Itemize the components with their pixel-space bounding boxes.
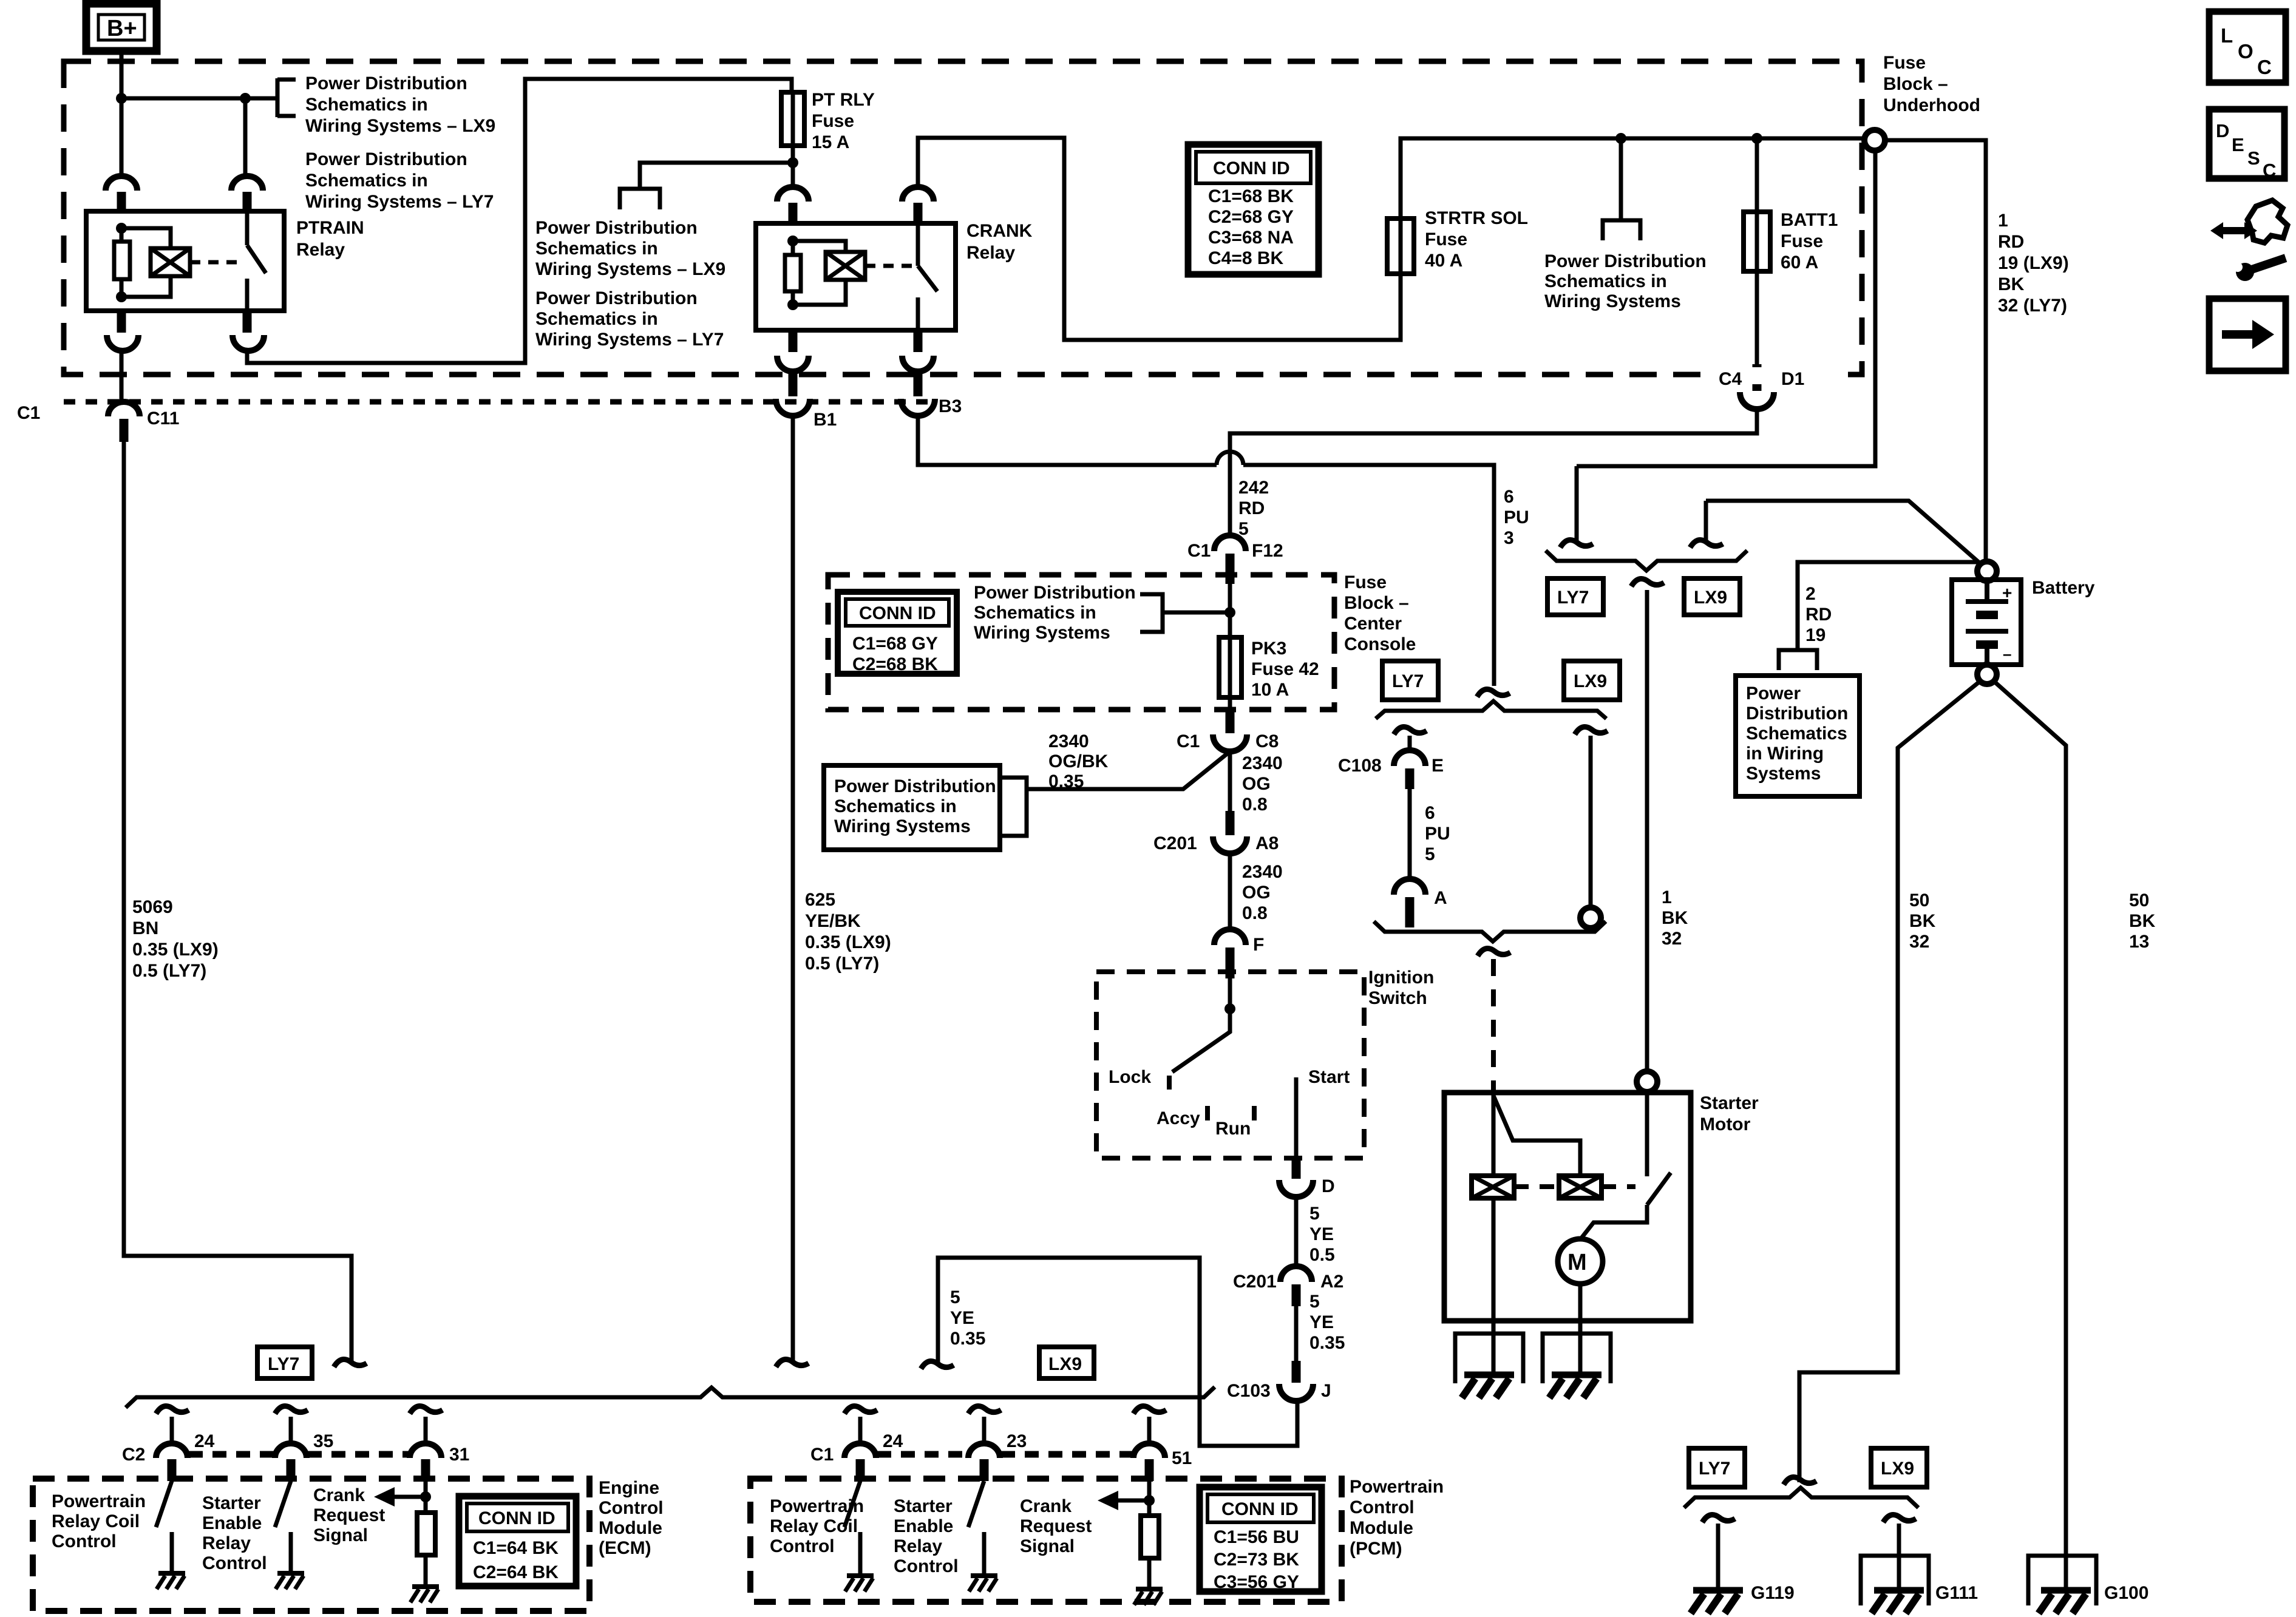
wire fuse to CRANK relay left pin [791, 146, 795, 188]
PTRAIN relay coil [151, 248, 190, 276]
wire B3 feed up to circle bottom [1577, 151, 1875, 466]
svg-text:CONN ID: CONN ID [1213, 158, 1290, 178]
svg-text:C: C [2257, 56, 2272, 78]
label 2340 OG 0.8 [1242, 753, 1283, 815]
svg-text:15 A: 15 A [812, 132, 849, 152]
svg-text:6: 6 [1425, 803, 1435, 823]
svg-text:CONN ID: CONN ID [1221, 1499, 1299, 1519]
svg-text:Control: Control [52, 1531, 117, 1551]
svg-text:Wiring Systems – LY7: Wiring Systems – LY7 [535, 330, 724, 350]
splice squiggle above bus4 [1784, 1477, 1816, 1485]
ECM crank request arrow [374, 1487, 431, 1507]
svg-text:Switch: Switch [1368, 988, 1427, 1008]
wire 5069 BN down left side [124, 442, 352, 1364]
CRANK switch [918, 223, 937, 330]
wire A8 down to F [1228, 853, 1232, 931]
svg-text:LY7: LY7 [1699, 1459, 1730, 1479]
ground starter 2 [1549, 1375, 1601, 1398]
conn id table underhood [1188, 144, 1319, 274]
svg-text:Lock: Lock [1109, 1067, 1151, 1087]
bus4 splice bar G119/G111 [1684, 1488, 1918, 1508]
svg-text:Fuse: Fuse [1781, 231, 1823, 251]
connector C1 C8 [1177, 731, 1279, 751]
svg-text:G111: G111 [1935, 1583, 1978, 1603]
svg-text:Module: Module [1350, 1518, 1413, 1538]
svg-text:Schematics in: Schematics in [305, 171, 428, 191]
ignition switch wire to pivot [1228, 978, 1232, 1009]
label 2 RD 19 [1805, 584, 1832, 645]
connector B3 [901, 396, 962, 416]
label crank request signal (PCM) [1020, 1496, 1092, 1556]
svg-text:C3=68 NA: C3=68 NA [1208, 228, 1294, 248]
svg-text:D: D [2216, 120, 2229, 141]
connector C201 A8 [1153, 833, 1279, 853]
svg-text:1: 1 [1662, 887, 1672, 907]
svg-text:C4=8 BK: C4=8 BK [1208, 248, 1284, 268]
ECM ground 24 [157, 1573, 185, 1589]
svg-text:BK: BK [1662, 908, 1688, 928]
dashed link coil2-switch [1601, 1184, 1635, 1189]
svg-text:RD: RD [1238, 498, 1265, 518]
PCM ground 24 [845, 1576, 874, 1592]
ECM switch 24 [156, 1481, 172, 1573]
label 1 BK 32 [1662, 887, 1688, 949]
wire coil1 to box bottom [1492, 1198, 1496, 1375]
wire to LX9/LY7 reference bracket [640, 163, 793, 189]
label 1 RD 19 [1998, 211, 2069, 316]
svg-text:S: S [2247, 147, 2260, 169]
note power distribution LY7 [305, 149, 494, 212]
svg-text:Schematics in: Schematics in [305, 95, 428, 115]
svg-text:C103: C103 [1227, 1381, 1271, 1401]
svg-text:0.35 (LX9): 0.35 (LX9) [805, 932, 891, 952]
svg-text:Enable: Enable [894, 1516, 953, 1536]
svg-text:2: 2 [1805, 584, 1816, 604]
svg-text:1: 1 [1998, 211, 2008, 231]
svg-text:C1=68 GY: C1=68 GY [852, 634, 938, 654]
svg-text:E: E [2232, 134, 2244, 155]
junction dot at PTRAIN right pin branch [240, 93, 251, 104]
svg-text:10 A: 10 A [1251, 680, 1289, 700]
svg-text:C4: C4 [1719, 369, 1742, 389]
svg-text:Power Distribution: Power Distribution [1544, 251, 1707, 271]
svg-text:C1: C1 [1187, 541, 1211, 561]
wire motor to box bottom [1578, 1284, 1583, 1375]
label 242 RD 5 [1238, 478, 1269, 539]
svg-text:PT RLY: PT RLY [812, 90, 875, 110]
fuse PT RLY 15A [781, 90, 875, 152]
wire PTRAIN right pin from branch [243, 98, 248, 175]
svg-text:C1=64 BK: C1=64 BK [473, 1538, 559, 1558]
svg-text:C1: C1 [1177, 731, 1200, 751]
svg-text:5: 5 [1425, 844, 1435, 864]
svg-text:Start: Start [1308, 1067, 1350, 1087]
svg-text:in Wiring: in Wiring [1746, 744, 1824, 764]
svg-text:2340: 2340 [1242, 862, 1283, 882]
PTRAIN resistor [114, 242, 130, 279]
bracket PDS box left [1002, 778, 1027, 836]
svg-text:LX9: LX9 [1574, 671, 1607, 691]
svg-text:Schematics in: Schematics in [834, 796, 957, 816]
svg-text:19 (LX9): 19 (LX9) [1998, 253, 2069, 273]
svg-text:RD: RD [1805, 605, 1832, 625]
svg-text:Ignition: Ignition [1368, 968, 1434, 988]
svg-text:Crank: Crank [1020, 1496, 1072, 1516]
wire B1 pin to dotted line [789, 373, 798, 396]
label 5069 BN [132, 897, 219, 981]
svg-text:32 (LY7): 32 (LY7) [1998, 296, 2067, 316]
svg-text:(PCM): (PCM) [1350, 1539, 1402, 1559]
bracket PDS (top right) [1603, 220, 1640, 240]
svg-text:LX9: LX9 [1881, 1459, 1914, 1479]
svg-text:50: 50 [1909, 890, 1929, 910]
svg-text:LX9: LX9 [1694, 588, 1727, 608]
connector C4 D1 [1719, 369, 1804, 409]
svg-text:Fuse: Fuse [1344, 572, 1387, 592]
svg-text:Relay: Relay [202, 1533, 251, 1553]
svg-text:19: 19 [1805, 625, 1826, 645]
junction dot at B+ branch [116, 93, 127, 104]
wire F12 to PK3 fuse [1228, 584, 1232, 637]
PCM crank request arrow [1098, 1491, 1155, 1510]
label starter motor [1700, 1093, 1759, 1134]
starter solenoid branch to coil2 [1493, 1096, 1580, 1176]
Lock position tick [1167, 1076, 1172, 1090]
svg-text:LY7: LY7 [1557, 588, 1589, 608]
ground bracket starter 2 [1543, 1334, 1611, 1383]
PCM pin dashed link [877, 1451, 967, 1458]
bus LY7/LX9 module feed bar [126, 1387, 1215, 1408]
Accy position tick [1205, 1106, 1210, 1120]
PTRAIN coil junction bottom [116, 291, 127, 302]
svg-text:B3: B3 [939, 396, 962, 416]
svg-text:Starter: Starter [894, 1496, 953, 1516]
wire PTRAIN output down to C11 [120, 351, 124, 402]
wire blade to motor [1580, 1205, 1647, 1239]
svg-text:625: 625 [805, 890, 835, 910]
connector A [1394, 879, 1447, 927]
svg-text:YE/BK: YE/BK [805, 911, 861, 931]
svg-text:Battery: Battery [2032, 578, 2095, 598]
battery positive terminal circle [1977, 561, 1997, 581]
wire to G111 [1897, 1524, 1901, 1590]
svg-text:CONN ID: CONN ID [859, 603, 936, 623]
svg-text:Run: Run [1215, 1119, 1251, 1139]
splice squiggle below bus2 right [1575, 727, 1608, 735]
label fuse block center console [1344, 572, 1416, 654]
svg-text:Distribution: Distribution [1746, 703, 1848, 724]
connector B1 [776, 399, 837, 430]
svg-text:Schematics in: Schematics in [535, 309, 658, 329]
wire branch to PT RLY fuse [121, 97, 277, 101]
svg-text:Powertrain: Powertrain [1350, 1477, 1444, 1497]
svg-text:Request: Request [1020, 1516, 1092, 1536]
ECM pin 24 drop [122, 1406, 215, 1482]
splice squiggle above LY7 bus left [334, 1360, 367, 1368]
ground bracket G100 [2028, 1556, 2096, 1605]
svg-text:24: 24 [883, 1431, 903, 1451]
svg-text:C2=73 BK: C2=73 BK [1214, 1550, 1299, 1570]
svg-text:Relay: Relay [894, 1536, 942, 1556]
splice squiggle below bus4 left [1702, 1515, 1735, 1523]
ignition pivot dot [1224, 1003, 1235, 1014]
label 6 PU 3 [1504, 487, 1529, 548]
CRANK left pin bottom stub B1 [777, 330, 809, 371]
connector C201 A2 [1233, 1266, 1343, 1306]
connector C1 C11 [17, 402, 179, 442]
svg-text:Power Distribution: Power Distribution [535, 288, 698, 308]
wire B3 pin to dotted line [914, 373, 923, 396]
wire D to C201/A2 [1294, 1196, 1299, 1269]
wire bus2 right down to starter circle [1589, 736, 1593, 908]
starter solenoid pull-in wire [1492, 1093, 1496, 1176]
svg-text:–: – [2003, 645, 2011, 663]
label 6 PU 5 [1425, 803, 1450, 864]
svg-text:0.35 (LX9): 0.35 (LX9) [132, 940, 219, 960]
note power distribution LY7 (crank) [535, 288, 724, 350]
svg-text:Engine: Engine [599, 1478, 659, 1498]
junction dot BATT1 branch [1751, 133, 1762, 144]
splice squiggle above LX9 bus (B1 wire) [776, 1360, 809, 1368]
wire 2 RD 19 from battery positive [1798, 562, 1977, 649]
splice squiggle above LX9 bus (ignition wire) [921, 1361, 954, 1369]
label starter enable relay control (PCM) [894, 1496, 959, 1576]
svg-text:2340: 2340 [1048, 731, 1089, 751]
svg-text:PU: PU [1504, 507, 1529, 527]
svg-text:32: 32 [1662, 929, 1682, 949]
svg-text:C2=68 BK: C2=68 BK [852, 654, 938, 674]
svg-text:0.35: 0.35 [950, 1329, 985, 1349]
svg-text:CONN ID: CONN ID [478, 1508, 555, 1528]
wire circle to battery positive [1885, 140, 1986, 561]
svg-text:Control: Control [1350, 1497, 1415, 1517]
svg-text:C1=56 BU: C1=56 BU [1214, 1527, 1299, 1547]
PCM switch 23 [968, 1481, 984, 1576]
svg-text:(ECM): (ECM) [599, 1538, 651, 1558]
svg-text:A: A [1434, 888, 1447, 908]
svg-text:BK: BK [2129, 911, 2156, 931]
svg-text:35: 35 [313, 1431, 333, 1451]
PCM ground 51 [1134, 1589, 1163, 1605]
note power distribution LX9 (crank) [535, 218, 725, 279]
ignition switch blade to Lock [1172, 1009, 1230, 1072]
svg-text:OG: OG [1242, 774, 1271, 794]
connector F [1214, 929, 1264, 978]
svg-text:Schematics in: Schematics in [974, 603, 1096, 623]
note power distribution (top right) [1544, 251, 1707, 311]
PCM pin 24 drop [810, 1406, 903, 1482]
svg-text:60 A: 60 A [1781, 253, 1818, 273]
bracket PDS console [1140, 594, 1163, 632]
connector arc PTRAIN right pin [231, 176, 263, 211]
svg-text:Control: Control [770, 1536, 835, 1556]
label starter enable relay control (ECM) [202, 1493, 267, 1573]
svg-text:0.8: 0.8 [1242, 903, 1268, 923]
bus1 splice bar [1546, 551, 1747, 571]
reference bracket crank [620, 189, 660, 209]
svg-text:BN: BN [132, 918, 158, 938]
ECM pin 35 drop [275, 1406, 333, 1482]
svg-text:5069: 5069 [132, 897, 173, 917]
svg-text:Power Distribution: Power Distribution [974, 583, 1136, 603]
svg-text:Starter: Starter [1700, 1093, 1759, 1113]
svg-text:Wiring Systems: Wiring Systems [834, 816, 971, 836]
wire to E connector [1408, 736, 1412, 753]
wire CRANK right pin up and over to STRTR SOL loop [918, 138, 1401, 340]
starter feed terminal circle [1637, 1071, 1657, 1092]
svg-text:Schematics in: Schematics in [535, 239, 658, 259]
ECM pin dashed link [189, 1451, 274, 1458]
bracket PDS battery [1779, 650, 1817, 670]
svg-text:5: 5 [1309, 1292, 1320, 1312]
diagonal wire to PDS (2340 OG/BK) [1027, 751, 1230, 789]
label crank request signal (ECM) [313, 1485, 385, 1545]
CRANK resistor [785, 255, 801, 291]
ECM ground 35 [276, 1573, 304, 1589]
splice squiggle below bus3 notch [1478, 949, 1510, 957]
svg-text:Power Distribution: Power Distribution [535, 218, 698, 238]
svg-text:C108: C108 [1338, 756, 1382, 776]
svg-text:Power: Power [1746, 683, 1801, 703]
svg-text:13: 13 [2129, 932, 2149, 952]
svg-text:Center: Center [1344, 614, 1402, 634]
svg-text:C8: C8 [1255, 731, 1279, 751]
svg-text:YE: YE [950, 1308, 974, 1328]
svg-text:23: 23 [1007, 1431, 1027, 1451]
CRANK relay coil [826, 252, 865, 280]
label 625 YE/BK [805, 890, 891, 974]
connector arc PTRAIN left pin [106, 176, 137, 211]
svg-text:PTRAIN: PTRAIN [296, 218, 364, 238]
svg-text:C: C [2263, 160, 2276, 181]
fuse BATT1 60A [1744, 138, 1838, 273]
label 2340 OG 0.8 (below A8) [1242, 862, 1283, 923]
ground starter 1 [1462, 1375, 1514, 1398]
PTRAIN actuator dashed link [190, 260, 242, 265]
wire STRTR SOL fuse up to bus [1401, 138, 1864, 219]
svg-text:Module: Module [599, 1518, 662, 1538]
note power distribution box (battery) [1736, 676, 1860, 796]
wire B3 down and right (starter feed) [918, 415, 1494, 686]
Run position tick [1252, 1106, 1257, 1120]
svg-text:Wiring Systems – LX9: Wiring Systems – LX9 [535, 259, 725, 279]
Start contact wire [1294, 1077, 1299, 1158]
svg-text:40 A: 40 A [1425, 251, 1462, 271]
svg-text:CRANK: CRANK [966, 221, 1033, 241]
starter switch blade [1647, 1173, 1671, 1205]
svg-text:Wiring Systems: Wiring Systems [974, 623, 1110, 643]
svg-text:+: + [2002, 583, 2012, 602]
svg-text:5: 5 [1309, 1204, 1320, 1224]
splice squiggle below bus4 right [1883, 1515, 1916, 1523]
PCM pulldown resistor [1141, 1481, 1159, 1589]
svg-text:Wiring Systems – LY7: Wiring Systems – LY7 [305, 192, 494, 212]
terminal circle fuse block underhood [1864, 130, 1885, 151]
svg-text:51: 51 [1172, 1448, 1192, 1468]
connector C103 J [1227, 1381, 1331, 1401]
wire C8 down to A8 [1228, 751, 1232, 811]
wire 625 YE/BK B1 down to LX9 bus [791, 415, 795, 1363]
node B+ power feed box [86, 4, 157, 51]
svg-text:C1: C1 [17, 403, 40, 423]
relay CRANK box [756, 223, 956, 330]
svg-text:C11: C11 [147, 408, 179, 429]
wire E to A [1408, 789, 1412, 881]
wire bracket to PK3 feed [1163, 611, 1230, 615]
svg-text:OG: OG [1242, 883, 1271, 903]
PCM pin 51 drop [1133, 1406, 1192, 1482]
reference bracket [277, 78, 296, 117]
svg-text:STRTR SOL: STRTR SOL [1425, 208, 1528, 228]
label ignition switch [1368, 968, 1434, 1008]
ground bracket G111 [1861, 1556, 1929, 1605]
starter switch contact [1645, 1092, 1649, 1176]
svg-text:31: 31 [449, 1445, 469, 1465]
wire battery positive branch [1706, 501, 1983, 566]
svg-text:24: 24 [194, 1431, 215, 1451]
svg-text:Fuse: Fuse [1425, 229, 1467, 249]
ignition switch dashed box [1096, 972, 1364, 1158]
label fuse block underhood [1883, 53, 1980, 115]
svg-text:Wiring Systems – LX9: Wiring Systems – LX9 [305, 116, 495, 136]
svg-text:G100: G100 [2104, 1583, 2148, 1603]
svg-text:Systems: Systems [1746, 764, 1821, 784]
wire PK3 to C8 [1228, 697, 1232, 711]
LX9 tag box (grounds) [1871, 1448, 1927, 1487]
motor M circle [1558, 1239, 1603, 1284]
svg-text:YE: YE [1309, 1224, 1334, 1244]
wire PTRAIN switch to CRANK coil loop [247, 79, 792, 363]
CRANK coil wires [793, 241, 846, 305]
svg-text:D1: D1 [1781, 369, 1804, 389]
label 5 YE 0.35 (left) [950, 1287, 985, 1349]
junction dot PDS stub [1615, 133, 1626, 144]
svg-text:Crank: Crank [313, 1485, 365, 1505]
svg-text:C2=68 GY: C2=68 GY [1208, 207, 1294, 227]
svg-text:PK3: PK3 [1251, 639, 1286, 659]
label 50 BK 13 [2129, 890, 2156, 952]
CRANK label [966, 221, 1033, 263]
svg-text:Power Distribution: Power Distribution [305, 73, 467, 93]
splice squiggle below bus1 notch [1631, 579, 1664, 587]
svg-text:Power Distribution: Power Distribution [834, 776, 996, 796]
junction dot below PT RLY fuse [787, 157, 798, 168]
svg-text:Starter: Starter [202, 1493, 261, 1513]
label 2340 OG/BK 0.35 [1048, 731, 1109, 792]
svg-text:J: J [1321, 1381, 1331, 1401]
ground G111 [1872, 1583, 1978, 1613]
connector D [1279, 1158, 1335, 1197]
svg-text:F: F [1253, 935, 1264, 955]
svg-text:G119: G119 [1751, 1583, 1795, 1603]
note power distribution box (left of C8) [824, 765, 1000, 850]
svg-text:Schematics in: Schematics in [1544, 271, 1667, 291]
svg-text:0.35: 0.35 [1309, 1333, 1345, 1353]
conn id table center console [838, 592, 957, 674]
svg-text:Fuse: Fuse [1883, 53, 1926, 73]
PCM switch 24 [844, 1481, 860, 1576]
dotted connector line C11 [64, 399, 938, 405]
LY7 tag box (ECM bus) [257, 1347, 312, 1378]
wire B+ down to PTRAIN relay [120, 51, 124, 177]
dashed link coil1-coil2 [1514, 1184, 1559, 1189]
wire circle-feed down to bus1 left [1575, 466, 1579, 542]
PCM ground 23 [969, 1576, 997, 1592]
svg-text:RD: RD [1998, 232, 2024, 252]
label 5 YE 0.5 [1309, 1204, 1335, 1265]
solenoid coil 2 [1559, 1176, 1601, 1198]
svg-text:0.8: 0.8 [1242, 795, 1268, 815]
